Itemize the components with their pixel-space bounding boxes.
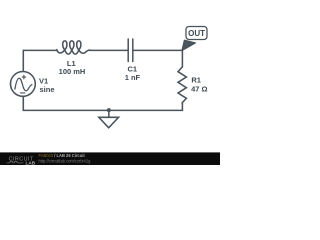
wire capacitor to corner	[133, 49, 182, 51]
wire right vertical bottom	[181, 103, 183, 110]
wire right vertical top	[181, 50, 183, 67]
svg-text:100 mH: 100 mH	[59, 67, 86, 76]
svg-text:1 nF: 1 nF	[125, 73, 141, 82]
capacitor C1 plate right	[132, 39, 134, 62]
wire bottom	[23, 109, 182, 111]
voltage source V1 circle	[11, 72, 36, 97]
V1 plus sign	[22, 75, 26, 79]
svg-text:OUT: OUT	[188, 29, 205, 38]
svg-text:47 Ω: 47 Ω	[191, 84, 207, 93]
wire inductor to capacitor	[90, 49, 128, 51]
V1 sine wave	[15, 78, 32, 91]
inductor L1	[57, 41, 90, 54]
footer logo waveform	[7, 161, 24, 163]
svg-text:FAB043 / LAB 26 Circuit: FAB043 / LAB 26 Circuit	[39, 153, 86, 158]
OUT flag body	[186, 27, 207, 40]
resistor R1	[178, 67, 186, 103]
OUT flag pointer	[182, 40, 196, 50]
V1 minus sign	[21, 92, 25, 94]
wire left vertical top	[22, 50, 24, 71]
ground symbol	[99, 117, 119, 128]
ground stub	[108, 110, 110, 117]
wire top left	[23, 49, 57, 51]
wire left vertical bottom	[22, 96, 24, 110]
junction node dot	[107, 108, 111, 112]
footer bar	[0, 152, 220, 165]
svg-text:sine: sine	[40, 85, 55, 94]
svg-text:R1: R1	[191, 76, 201, 85]
svg-text:LAB: LAB	[26, 160, 36, 165]
svg-text:http://circuitlab.com/czrfz42g: http://circuitlab.com/czrfz42g	[39, 159, 92, 164]
capacitor C1 plate left	[127, 39, 129, 62]
